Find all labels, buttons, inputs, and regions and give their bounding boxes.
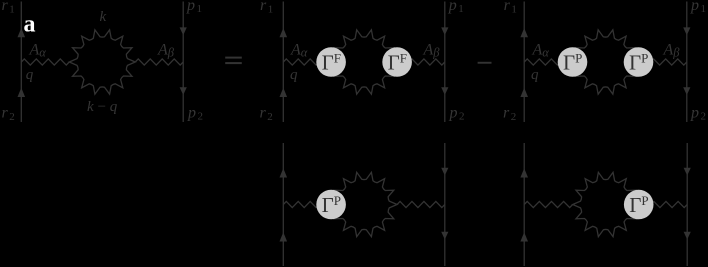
photon wire A_alpha <box>21 59 69 65</box>
svg-text:r2: r2 <box>260 105 273 123</box>
arrowhead up (left line, lower) <box>280 88 288 97</box>
svg-text:Aα: Aα <box>290 42 308 60</box>
wire: incoming fermion line (left) <box>282 2 284 123</box>
wire: incoming fermion line (left) <box>20 2 22 123</box>
svg-text:r2: r2 <box>2 105 15 123</box>
arrowhead up (left line, upper) <box>280 168 288 177</box>
arrowhead down (right line, upper) <box>180 27 187 35</box>
arrowhead up (left line, lower) <box>18 88 26 97</box>
wire: outgoing fermion line (right) <box>686 2 688 123</box>
arrowhead down (right line, upper) <box>684 168 691 176</box>
arrowhead down (right line, upper) <box>441 168 448 176</box>
arrowhead up (left line, upper) <box>18 28 26 37</box>
photon wire right (diagram 4) <box>397 201 445 207</box>
arrowhead down (right line, upper) <box>683 27 690 35</box>
wire: incoming fermion line (left) <box>282 143 284 266</box>
arrowhead down (right line, lower) <box>684 232 691 240</box>
arrowhead down (right line, lower) <box>441 87 448 95</box>
svg-text:r1: r1 <box>504 0 517 16</box>
wire: outgoing fermion line (right) <box>444 143 446 266</box>
wire: outgoing fermion line (right) <box>686 143 688 266</box>
vertex blob Gamma^F (right) <box>382 47 412 77</box>
photon loop (momentum k) <box>69 30 135 94</box>
arrowhead down (right line, lower) <box>683 87 690 95</box>
wire: incoming fermion line (left) <box>523 2 525 123</box>
arrowhead up (left line, upper) <box>520 168 528 177</box>
arrowhead down (right line, lower) <box>441 232 448 240</box>
arrowhead up (left line, lower) <box>520 88 528 97</box>
vertex blob Gamma^P (left, diagram 3) <box>558 47 588 77</box>
svg-text:p2: p2 <box>449 104 465 122</box>
svg-text:k − q: k − q <box>87 99 118 115</box>
svg-text:Aα: Aα <box>532 42 550 60</box>
svg-text:q: q <box>531 67 539 83</box>
equals sign <box>225 57 242 65</box>
minus sign <box>478 62 492 64</box>
svg-text:q: q <box>26 67 34 83</box>
svg-text:p1: p1 <box>690 0 706 15</box>
vertex blob Gamma^P (diagram 4) <box>316 190 346 220</box>
photon loop (diagram 3) <box>573 30 639 94</box>
vertex blob Gamma^F (left) <box>316 47 346 77</box>
photon wire A_beta <box>135 59 183 65</box>
photon wire A_beta (diagram 2) <box>397 59 445 65</box>
photon wire left (diagram 4) <box>283 201 331 207</box>
wire: incoming fermion line (left) <box>523 143 525 266</box>
arrowhead down (right line, lower) <box>180 87 187 95</box>
svg-text:r1: r1 <box>260 0 273 16</box>
photon wire left (diagram 5) <box>524 201 573 207</box>
photon loop (diagram 2) <box>331 30 397 94</box>
photon wire A_beta (diagram 3) <box>639 59 687 65</box>
svg-text:a: a <box>24 12 36 38</box>
arrowhead up (left line, upper) <box>280 28 288 37</box>
photon wire right (diagram 5) <box>639 201 688 207</box>
arrowhead up (left line, upper) <box>520 28 528 37</box>
arrowhead up (left line, lower) <box>280 232 288 241</box>
photon wire A_alpha (diagram 2) <box>283 59 331 65</box>
wire: outgoing fermion line (right) <box>182 2 184 123</box>
vertex blob Gamma^P (right, diagram 3) <box>624 47 654 77</box>
photon loop (diagram 4) <box>331 172 397 236</box>
svg-text:Aβ: Aβ <box>663 42 681 60</box>
photon wire A_alpha (diagram 3) <box>524 59 572 65</box>
svg-text:Aβ: Aβ <box>157 42 175 60</box>
svg-text:p2: p2 <box>187 104 203 122</box>
svg-text:Aα: Aα <box>29 42 47 60</box>
svg-text:p1: p1 <box>448 0 464 15</box>
svg-text:p1: p1 <box>186 0 202 15</box>
svg-text:Aβ: Aβ <box>423 42 441 60</box>
photon loop (diagram 5) <box>573 172 639 236</box>
svg-text:k: k <box>100 9 107 25</box>
svg-text:p2: p2 <box>690 104 706 122</box>
svg-text:r1: r1 <box>2 0 15 16</box>
svg-text:q: q <box>290 67 298 83</box>
wire: outgoing fermion line (right) <box>444 2 446 123</box>
svg-text:r2: r2 <box>503 105 516 123</box>
arrowhead up (left line, lower) <box>520 232 528 241</box>
arrowhead down (right line, upper) <box>441 27 448 35</box>
vertex blob Gamma^P (diagram 5) <box>624 190 654 220</box>
